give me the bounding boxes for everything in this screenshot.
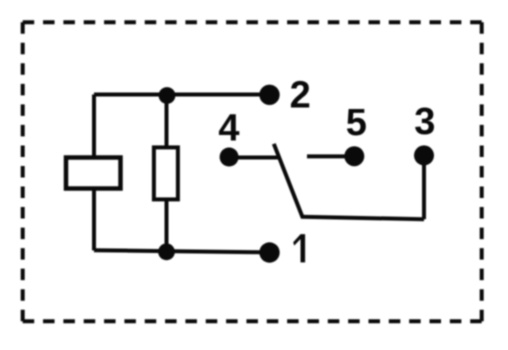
svg-text:2: 2 [290, 74, 311, 116]
svg-text:5: 5 [346, 102, 367, 144]
svg-text:3: 3 [414, 101, 435, 143]
svg-text:4: 4 [218, 108, 239, 150]
